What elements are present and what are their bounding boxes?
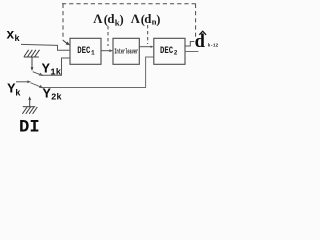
dashed box top edge xyxy=(62,3,196,5)
switch pole from Y_k xyxy=(16,81,29,83)
wire y_2k long into DEC2 xyxy=(30,57,153,88)
svg-text:): ) xyxy=(120,12,124,26)
svg-text:Interleaver: Interleaver xyxy=(114,48,138,56)
svg-text:1: 1 xyxy=(91,50,95,57)
svg-text:1k: 1k xyxy=(50,68,61,78)
svg-text:d: d xyxy=(107,12,114,26)
svg-text:d: d xyxy=(195,32,206,52)
dashed leader under Lambda(d_n) xyxy=(147,25,149,44)
svg-text:x: x xyxy=(6,29,14,44)
hatch symbol upper (under x_k wire) xyxy=(24,50,40,68)
dashed box left edge xyxy=(62,4,64,41)
svg-text:d: d xyxy=(144,12,151,26)
label Lambda(d_k) xyxy=(93,12,123,27)
arrow from dashed box into DEC1 xyxy=(63,40,68,44)
svg-text:DEC: DEC xyxy=(77,45,90,57)
svg-text:2k: 2k xyxy=(51,92,62,102)
svg-text:k: k xyxy=(14,34,20,44)
wire x_k into DEC1 xyxy=(21,44,70,50)
dashed leader under Lambda(d_k) xyxy=(107,26,109,46)
wire DEC1 to Interleaver xyxy=(101,50,111,52)
stub wire from DEC2 right xyxy=(185,51,198,53)
svg-text:Λ: Λ xyxy=(93,12,103,26)
wire Interleaver to DEC2 xyxy=(139,46,152,48)
label Lambda(d_n) xyxy=(131,12,161,27)
svg-text:k: k xyxy=(15,88,21,98)
svg-text:DI: DI xyxy=(19,119,40,135)
hatch symbol lower (below Y_k) xyxy=(28,96,31,100)
wire y_1k into DEC1 xyxy=(33,58,70,75)
svg-text:2: 2 xyxy=(174,50,178,57)
dashed box right edge xyxy=(195,4,197,37)
svg-text:k-12: k-12 xyxy=(208,42,219,48)
svg-text:DEC: DEC xyxy=(160,45,173,57)
svg-text:): ) xyxy=(156,12,160,26)
box DEC1 xyxy=(70,38,101,64)
svg-text:Λ: Λ xyxy=(131,12,141,26)
box Interleaver xyxy=(113,38,139,64)
wire DEC2 output to d_hat xyxy=(185,42,194,47)
box DEC2 xyxy=(154,38,185,64)
